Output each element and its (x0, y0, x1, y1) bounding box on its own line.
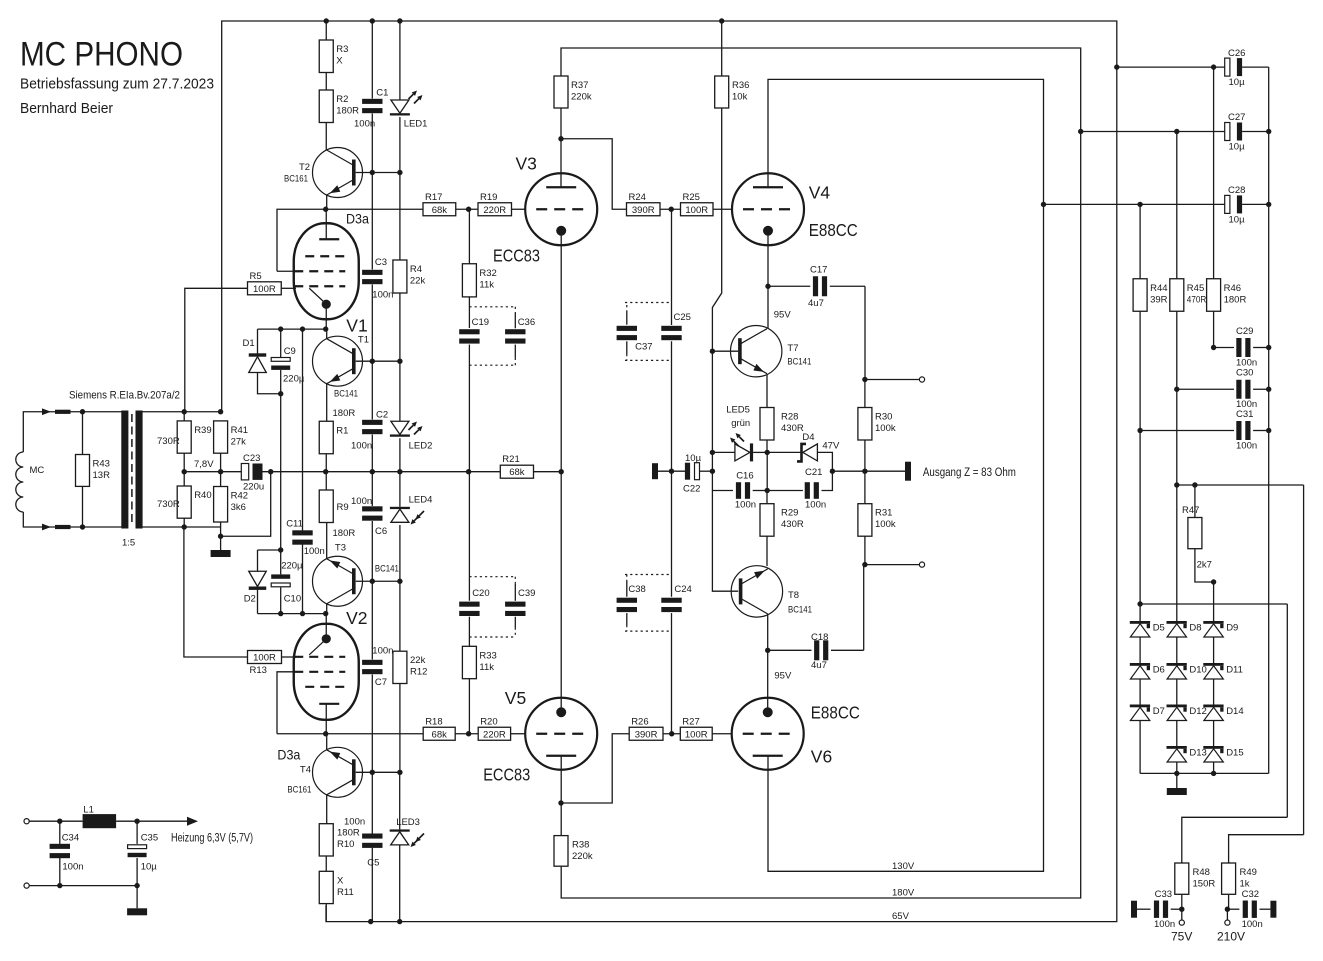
svg-text:R36: R36 (732, 80, 749, 91)
svg-text:C26: C26 (1228, 48, 1245, 59)
svg-text:220µ: 220µ (281, 561, 303, 572)
svg-text:65V: 65V (892, 911, 910, 922)
svg-text:R2: R2 (336, 94, 348, 105)
svg-text:D5: D5 (1153, 622, 1165, 633)
svg-text:V6: V6 (811, 746, 832, 766)
svg-text:100n: 100n (351, 441, 372, 452)
svg-text:R41: R41 (231, 425, 248, 436)
svg-text:D3a: D3a (277, 747, 300, 763)
svg-text:95V: 95V (774, 671, 792, 682)
svg-text:R39: R39 (194, 425, 211, 436)
svg-text:100k: 100k (875, 423, 896, 434)
svg-text:180R: 180R (337, 828, 360, 839)
svg-text:T4: T4 (300, 765, 311, 776)
svg-text:C34: C34 (62, 832, 79, 843)
svg-text:T7: T7 (787, 343, 798, 354)
svg-text:Ausgang Z = 83 Ohm: Ausgang Z = 83 Ohm (923, 467, 1016, 479)
svg-text:E88CC: E88CC (809, 220, 858, 240)
svg-text:7,8V: 7,8V (194, 459, 214, 470)
svg-text:R49: R49 (1240, 867, 1257, 878)
svg-text:Heizung 6,3V (5,7V): Heizung 6,3V (5,7V) (171, 833, 253, 845)
svg-text:150R: 150R (1193, 879, 1216, 890)
svg-text:R26: R26 (631, 716, 648, 727)
svg-text:100R: 100R (685, 205, 708, 216)
svg-text:D1: D1 (243, 338, 255, 349)
svg-text:C24: C24 (674, 584, 691, 595)
svg-text:C22: C22 (683, 484, 700, 495)
svg-text:R31: R31 (875, 508, 892, 519)
svg-text:100n: 100n (304, 546, 325, 557)
svg-text:430R: 430R (781, 423, 804, 434)
svg-text:10µ: 10µ (1229, 77, 1246, 88)
svg-text:R20: R20 (480, 716, 497, 727)
svg-text:R46: R46 (1224, 283, 1241, 294)
svg-text:D12: D12 (1189, 706, 1206, 717)
svg-text:75V: 75V (1171, 930, 1192, 944)
svg-text:68k: 68k (432, 205, 448, 216)
svg-text:1k: 1k (1240, 879, 1250, 890)
svg-text:D10: D10 (1189, 664, 1206, 675)
svg-text:BC161: BC161 (287, 784, 311, 795)
svg-text:730R: 730R (157, 436, 180, 447)
svg-text:D2: D2 (244, 594, 256, 605)
svg-text:C2: C2 (376, 410, 388, 421)
svg-text:Siemens R.EIa.Bv.207a/2: Siemens R.EIa.Bv.207a/2 (69, 390, 180, 402)
svg-text:C28: C28 (1228, 185, 1245, 196)
svg-text:R32: R32 (479, 268, 496, 279)
svg-text:47V: 47V (822, 441, 840, 452)
svg-text:D7: D7 (1153, 706, 1165, 717)
svg-text:R28: R28 (781, 412, 798, 423)
svg-text:D9: D9 (1226, 622, 1238, 633)
svg-text:C3: C3 (375, 257, 387, 268)
svg-text:R9: R9 (337, 502, 349, 513)
svg-text:180V: 180V (892, 888, 915, 899)
svg-text:68k: 68k (432, 729, 448, 740)
svg-text:220u: 220u (243, 482, 264, 493)
svg-text:LED3: LED3 (396, 817, 420, 828)
svg-text:180R: 180R (1224, 294, 1247, 305)
svg-text:10k: 10k (732, 92, 748, 103)
svg-text:R1: R1 (336, 425, 348, 436)
svg-text:D6: D6 (1153, 664, 1165, 675)
svg-text:MC PHONO: MC PHONO (20, 36, 183, 74)
svg-text:100k: 100k (875, 519, 896, 530)
svg-text:390R: 390R (635, 729, 658, 740)
svg-text:1:5: 1:5 (122, 538, 135, 549)
svg-text:130V: 130V (892, 861, 915, 872)
svg-text:220k: 220k (572, 851, 593, 862)
svg-text:220µ: 220µ (283, 374, 305, 385)
svg-text:L1: L1 (83, 804, 94, 815)
svg-text:T1: T1 (358, 335, 369, 346)
svg-text:100R: 100R (253, 653, 276, 664)
svg-text:C33: C33 (1155, 889, 1172, 900)
svg-text:C29: C29 (1236, 326, 1253, 337)
svg-text:R3: R3 (336, 44, 348, 55)
svg-text:R25: R25 (683, 192, 700, 203)
svg-text:D13: D13 (1189, 747, 1206, 758)
svg-text:D3a: D3a (346, 211, 369, 227)
svg-text:100n: 100n (1154, 919, 1175, 930)
svg-text:BC141: BC141 (375, 563, 399, 574)
svg-text:100n: 100n (372, 290, 393, 301)
svg-text:10µ: 10µ (1229, 214, 1246, 225)
svg-text:R18: R18 (425, 716, 442, 727)
svg-text:100n: 100n (372, 646, 393, 657)
svg-text:180R: 180R (333, 528, 356, 539)
svg-text:C21: C21 (805, 467, 822, 478)
svg-text:R38: R38 (572, 840, 589, 851)
svg-text:BC141: BC141 (334, 388, 358, 399)
svg-text:C6: C6 (375, 526, 387, 537)
svg-text:68k: 68k (509, 467, 525, 478)
svg-text:D4: D4 (802, 432, 814, 443)
svg-text:22k: 22k (410, 276, 426, 287)
svg-text:BC141: BC141 (788, 605, 812, 616)
svg-text:R43: R43 (93, 459, 110, 470)
svg-text:100n: 100n (1242, 919, 1263, 930)
svg-text:LED2: LED2 (409, 441, 433, 452)
svg-text:R21: R21 (502, 454, 519, 465)
svg-text:100n: 100n (344, 817, 365, 828)
svg-text:2k7: 2k7 (1197, 560, 1212, 571)
svg-text:39R: 39R (1150, 294, 1168, 305)
svg-text:ECC83: ECC83 (483, 765, 530, 785)
svg-text:V1: V1 (346, 316, 367, 336)
svg-text:BC161: BC161 (284, 174, 308, 185)
svg-text:10µ: 10µ (1229, 142, 1246, 153)
svg-text:C27: C27 (1228, 112, 1245, 123)
svg-text:R29: R29 (781, 508, 798, 519)
svg-text:R13: R13 (250, 665, 267, 676)
svg-text:D8: D8 (1189, 622, 1201, 633)
svg-text:E88CC: E88CC (811, 702, 860, 722)
svg-text:R40: R40 (194, 490, 211, 501)
svg-text:C19: C19 (472, 317, 489, 328)
svg-text:T3: T3 (335, 543, 346, 554)
svg-text:R17: R17 (425, 192, 442, 203)
svg-text:210V: 210V (1217, 930, 1245, 944)
svg-text:D14: D14 (1226, 706, 1243, 717)
svg-text:10µ: 10µ (141, 862, 158, 873)
svg-text:Bernhard Beier: Bernhard Beier (20, 100, 113, 117)
svg-text:390R: 390R (632, 205, 655, 216)
svg-text:R33: R33 (479, 650, 496, 661)
svg-text:R30: R30 (875, 412, 892, 423)
svg-text:C1: C1 (376, 88, 388, 99)
svg-text:27k: 27k (231, 436, 247, 447)
svg-text:ECC83: ECC83 (493, 245, 540, 265)
svg-text:C38: C38 (628, 584, 645, 595)
svg-text:430R: 430R (781, 519, 804, 530)
svg-text:10µ: 10µ (685, 453, 702, 464)
svg-text:C7: C7 (375, 677, 387, 688)
svg-text:R5: R5 (250, 271, 262, 282)
svg-text:C16: C16 (736, 471, 753, 482)
svg-text:22k: 22k (410, 655, 426, 666)
svg-text:LED5: LED5 (726, 405, 750, 416)
svg-text:100n: 100n (735, 500, 756, 511)
svg-text:X: X (336, 56, 343, 67)
svg-text:C17: C17 (810, 265, 827, 276)
svg-text:T8: T8 (788, 590, 799, 601)
svg-text:C5: C5 (367, 858, 379, 869)
svg-text:4u7: 4u7 (808, 298, 824, 309)
svg-text:R4: R4 (410, 264, 422, 275)
svg-text:220R: 220R (483, 729, 506, 740)
svg-text:BC141: BC141 (787, 356, 811, 367)
svg-text:C25: C25 (674, 312, 691, 323)
svg-text:R11: R11 (337, 887, 354, 898)
svg-text:R48: R48 (1193, 867, 1210, 878)
svg-text:730R: 730R (157, 499, 180, 510)
svg-text:180R: 180R (333, 408, 356, 419)
svg-text:R45: R45 (1187, 283, 1204, 294)
svg-text:C36: C36 (518, 317, 535, 328)
svg-text:11k: 11k (479, 279, 494, 290)
svg-text:V2: V2 (346, 608, 367, 628)
svg-text:100R: 100R (253, 284, 276, 295)
svg-text:13R: 13R (93, 470, 111, 481)
svg-text:X: X (337, 875, 344, 886)
svg-text:R12: R12 (410, 667, 427, 678)
svg-text:LED1: LED1 (404, 119, 428, 130)
svg-text:11k: 11k (479, 662, 494, 673)
svg-text:C11: C11 (286, 519, 303, 530)
svg-text:V5: V5 (505, 688, 526, 708)
svg-text:R27: R27 (682, 716, 699, 727)
svg-text:220R: 220R (483, 205, 506, 216)
svg-text:R19: R19 (480, 192, 497, 203)
svg-text:100n: 100n (62, 862, 83, 873)
svg-text:100n: 100n (351, 496, 372, 507)
svg-text:180R: 180R (336, 106, 359, 117)
svg-text:R47: R47 (1182, 505, 1199, 516)
svg-text:C30: C30 (1236, 368, 1253, 379)
svg-text:MC: MC (30, 465, 45, 476)
svg-text:LED4: LED4 (409, 495, 433, 506)
svg-text:D11: D11 (1226, 664, 1243, 675)
svg-text:100n: 100n (354, 119, 375, 130)
svg-text:C18: C18 (811, 632, 828, 643)
svg-text:grün: grün (731, 418, 750, 429)
svg-text:R37: R37 (571, 80, 588, 91)
svg-text:220k: 220k (571, 92, 592, 103)
svg-text:V4: V4 (809, 183, 831, 203)
svg-text:C35: C35 (141, 832, 158, 843)
svg-text:C31: C31 (1236, 409, 1253, 420)
svg-text:95V: 95V (774, 310, 792, 321)
svg-text:C23: C23 (243, 453, 260, 464)
svg-text:100n: 100n (805, 500, 826, 511)
svg-text:R10: R10 (337, 839, 354, 850)
svg-text:100n: 100n (1236, 441, 1257, 452)
svg-text:C9: C9 (284, 346, 296, 357)
svg-text:V3: V3 (516, 154, 537, 174)
svg-text:C20: C20 (472, 588, 489, 599)
svg-text:T2: T2 (299, 162, 310, 173)
svg-text:R44: R44 (1150, 283, 1167, 294)
svg-text:470R: 470R (1187, 294, 1207, 305)
svg-text:C10: C10 (284, 594, 301, 605)
svg-text:R24: R24 (629, 192, 646, 203)
svg-text:4u7: 4u7 (811, 660, 827, 671)
svg-text:Betriebsfassung zum 27.7.2023: Betriebsfassung zum 27.7.2023 (20, 76, 214, 93)
svg-text:3k6: 3k6 (231, 502, 246, 513)
svg-text:D15: D15 (1226, 747, 1243, 758)
svg-text:C39: C39 (518, 588, 535, 599)
svg-text:C37: C37 (635, 342, 652, 353)
svg-text:100R: 100R (685, 729, 708, 740)
svg-text:C32: C32 (1242, 889, 1259, 900)
